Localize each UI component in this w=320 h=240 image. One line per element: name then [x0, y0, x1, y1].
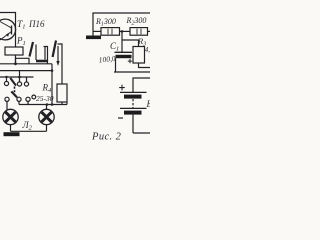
wire bus B: [0, 63, 52, 65]
wire corner to bus B: [44, 47, 48, 64]
wire stub C-D: [19, 71, 21, 77]
capacitor C1: [115, 51, 133, 53]
node dot: [18, 76, 21, 79]
contact blade 2: [11, 91, 17, 97]
lamp L2: [39, 109, 54, 124]
plug pin vertical with arrow: [57, 46, 59, 62]
svg-text:П16: П16: [28, 19, 45, 29]
thick contact bar: [36, 60, 47, 63]
resistor R2: [130, 28, 148, 36]
wire bus D: [0, 76, 34, 78]
label 25-30: [36, 94, 54, 103]
mechanical link dashed: [14, 87, 16, 96]
wire C1 bottom: [115, 58, 117, 72]
caption: [91, 132, 122, 143]
node dot: [46, 103, 49, 106]
label L2: [22, 120, 33, 132]
wire lamp bottoms: [11, 124, 47, 131]
wire branch to R3: [122, 40, 139, 47]
node dot: [51, 103, 54, 106]
resistor R4: [57, 84, 67, 102]
node dot: [14, 62, 17, 65]
wire lamp2 top: [46, 105, 48, 110]
ground 2: [86, 36, 101, 40]
svg-text:R1300: R1300: [95, 17, 116, 27]
label P1: [16, 36, 26, 48]
wire lamp bus: [19, 102, 67, 104]
svg-text:25-30: 25-30: [36, 94, 54, 103]
ground chassis bar: [4, 132, 20, 136]
switch blade thick: [30, 42, 34, 57]
contact blade 1: [10, 78, 16, 86]
resistor R1: [93, 30, 101, 32]
switch vertical 2: [44, 47, 46, 60]
switch cluster vertical: [35, 45, 37, 61]
contact terminal circles row1: [6, 77, 8, 81]
wire vertical V1: [51, 64, 53, 105]
label R4: [42, 83, 53, 95]
wire R3 bottom: [139, 63, 151, 68]
wire R1-R2: [120, 30, 131, 32]
transistor T1: [0, 19, 16, 40]
wire bus C: [0, 70, 52, 72]
label П16: [28, 19, 45, 29]
resistor R3: [133, 47, 145, 64]
label T1: [17, 20, 26, 31]
switch blade thick 2: [53, 41, 56, 58]
wire collector hook top-left: [0, 13, 16, 48]
svg-text:Рис. 2: Рис. 2: [91, 132, 122, 143]
node dot: [5, 76, 7, 78]
svg-text:100,0: 100,0: [98, 54, 116, 65]
contact terminal circles row2: [5, 97, 9, 101]
battery B: [133, 78, 150, 92]
relay coil P1: [5, 47, 23, 55]
wire junction drop to C1: [121, 31, 123, 52]
wire long vertical to R4: [58, 44, 63, 84]
svg-text:R2300: R2300: [126, 16, 147, 26]
node dot: [51, 69, 54, 72]
wire hook above bus B: [16, 58, 30, 64]
wire bottom bus right: [114, 71, 150, 73]
wire coil to bus: [15, 55, 17, 64]
node dot: [121, 30, 124, 33]
svg-text:Б: Б: [146, 99, 151, 109]
lamp L1: [3, 109, 18, 124]
svg-text:4,7: 4,7: [145, 46, 150, 54]
wire top bus right: [93, 13, 150, 36]
